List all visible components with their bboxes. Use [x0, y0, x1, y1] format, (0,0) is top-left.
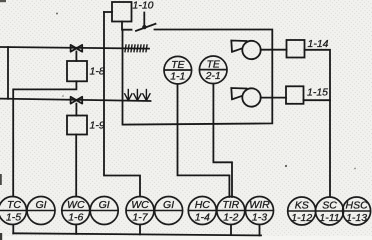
wire TE 1-1 to TIR 1-2: [178, 84, 230, 197]
wire WC 1-6 down: [75, 225, 77, 234]
svg-text:GI: GI: [99, 199, 110, 211]
instrument circle GI c: [155, 197, 183, 225]
svg-text:TIR: TIR: [222, 199, 239, 211]
svg-text:1-3: 1-3: [252, 212, 267, 224]
instrument circle HC 1-4: [188, 197, 216, 225]
svg-text:HSC: HSC: [346, 200, 369, 212]
svg-text:1-1: 1-1: [170, 71, 185, 83]
spray arrows on bus2: [125, 90, 150, 101]
svg-text:2-1: 2-1: [205, 70, 221, 82]
scan artifacts left edge: [0, 174, 2, 185]
fan F2 flag: [231, 88, 246, 99]
svg-text:GI: GI: [35, 199, 46, 211]
svg-text:1-4: 1-4: [195, 212, 210, 224]
fan F1 circle: [242, 41, 260, 59]
valve V2: [71, 97, 83, 104]
instrument circle TC 1-5: [0, 197, 27, 225]
wire TIR 1-2 down: [230, 225, 232, 235]
wire fan F2 to box 1-15: [261, 97, 286, 99]
wire left connector: [7, 47, 9, 99]
wire box 1-15 to vertical: [304, 99, 331, 101]
wire valve1 to box 1-8: [75, 52, 77, 62]
instrument circle GI b: [90, 197, 118, 225]
wire box 1-10 down to big box corner: [121, 22, 123, 30]
svg-text:1-7: 1-7: [132, 212, 148, 224]
svg-text:1-13: 1-13: [346, 212, 367, 224]
heater hatch ticks on bus1: [125, 45, 147, 52]
wire TE 2-1 to TIR 1-2: [213, 84, 232, 197]
svg-text:TE: TE: [171, 59, 185, 71]
wire valve2 to box 1-9: [75, 104, 77, 116]
switch actuator stem: [143, 13, 145, 27]
switch pivot dot: [142, 25, 146, 29]
svg-text:1-14: 1-14: [308, 38, 329, 50]
wire WIR 1-3 down: [259, 225, 261, 236]
svg-text:1-9: 1-9: [90, 120, 105, 132]
svg-text:WC: WC: [67, 199, 85, 211]
svg-text:1-5: 1-5: [6, 212, 21, 224]
wire box 1-9 to WC 1-6: [75, 135, 77, 197]
svg-text:1-11: 1-11: [319, 212, 339, 224]
svg-text:WIR: WIR: [249, 199, 270, 211]
svg-text:1-2: 1-2: [223, 212, 238, 224]
box 1-8: [67, 61, 87, 81]
instrument circle TIR 1-2: [217, 197, 245, 225]
scan specks: [56, 13, 58, 15]
svg-text:TE: TE: [206, 58, 220, 70]
wire bus1 left supply line: [0, 47, 149, 49]
switch blade: [136, 24, 156, 31]
wire bottom bus: [13, 233, 261, 235]
wire to box 1-10: [104, 11, 112, 13]
instrument circle HSC 1-13: [343, 197, 371, 225]
svg-text:1-15: 1-15: [307, 87, 328, 99]
svg-text:1-6: 1-6: [68, 212, 83, 224]
big box chamber outline: [123, 30, 273, 125]
svg-text:TC: TC: [7, 199, 21, 211]
wire TC 1-5 down: [12, 225, 14, 234]
instrument circle WIR 1-3: [246, 197, 274, 225]
box 1-14: [287, 40, 305, 58]
instrument circle TE 2-1: [199, 56, 227, 84]
box 1-15: [286, 86, 304, 104]
wire fan F1 to box 1-14: [261, 49, 287, 51]
box 1-9: [67, 116, 87, 135]
svg-text:GI: GI: [163, 199, 174, 211]
svg-text:WC: WC: [131, 199, 149, 211]
instrument circle GI a: [27, 197, 55, 225]
instrument circle KS 1-12: [288, 197, 316, 225]
fan F1 flag: [231, 41, 246, 52]
wire box 1-8 to TC 1-5: [13, 81, 76, 196]
bottom instrument row: [0, 197, 371, 226]
svg-text:HC: HC: [195, 199, 211, 211]
instrument circle SC 1-11: [316, 197, 344, 225]
fan F2 circle: [242, 88, 260, 106]
midlines of instrument circles: [0, 210, 27, 212]
wire bus2 left supply line: [0, 99, 151, 101]
instrument circle TE 1-1: [164, 56, 192, 84]
valve V1: [71, 45, 83, 52]
wire box 1-14 to SC 1-11: [305, 50, 331, 197]
svg-text:SC: SC: [322, 200, 337, 212]
svg-text:1-10: 1-10: [133, 0, 154, 12]
box 1-10: [112, 2, 132, 22]
svg-text:1-12: 1-12: [291, 212, 312, 224]
instrument circle WC 1-6: [62, 197, 90, 225]
circle texts: [6, 199, 368, 224]
svg-text:1-8: 1-8: [90, 66, 105, 78]
instrument circle WC 1-7: [126, 197, 154, 225]
wire WC 1-7 down: [139, 225, 141, 235]
wire long vertical to WC 1-7: [104, 12, 140, 197]
svg-text:KS: KS: [295, 200, 309, 212]
